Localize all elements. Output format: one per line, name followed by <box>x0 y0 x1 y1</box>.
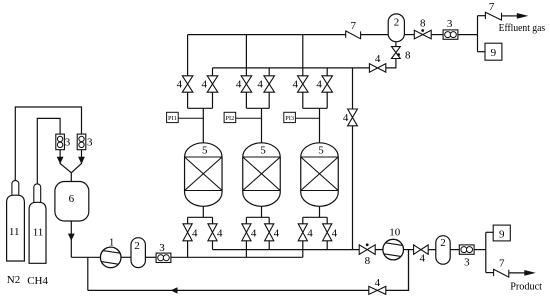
svg-text:4: 4 <box>419 252 425 264</box>
wire to analyzer 9a <box>478 51 486 53</box>
svg-text:8: 8 <box>365 255 371 267</box>
wire effluent outlet <box>502 15 518 17</box>
arrow recycle flow <box>171 287 178 293</box>
wire second header <box>213 67 353 69</box>
svg-text:8: 8 <box>405 50 411 62</box>
svg-text:8: 8 <box>420 17 426 29</box>
wire recycle line right segment <box>386 250 409 291</box>
flow controller 3a <box>56 134 65 150</box>
vacuum pump 10 <box>383 239 404 260</box>
svg-text:11: 11 <box>33 227 44 239</box>
wire equalization vertical <box>352 68 354 109</box>
wire vessel 6 outlet <box>70 221 72 258</box>
valve 4 top column 1 left <box>182 76 193 92</box>
valve 4h recycle <box>369 286 386 294</box>
wire second header drop to valve 4 column 1 right <box>212 68 214 76</box>
svg-text:10: 10 <box>389 226 401 238</box>
valve 4 bottom column 1 left <box>183 224 192 241</box>
node effluent junction riser up <box>477 16 479 35</box>
wire flowmeter 3d to effluent junction <box>458 34 478 36</box>
wire top header drop to valve 4 column 2 left <box>245 35 247 76</box>
svg-text:4: 4 <box>192 227 198 239</box>
svg-text:4: 4 <box>177 79 183 91</box>
svg-text:7: 7 <box>489 1 495 13</box>
node recycle tee <box>87 257 89 290</box>
wire vessel 2b drain stem <box>395 42 397 47</box>
svg-text:2: 2 <box>394 17 400 29</box>
adsorption column 5-3 <box>301 143 339 207</box>
valve 8c vessel 2b drain <box>392 47 401 59</box>
wire second header drop to valve 4 column 2 right <box>268 68 270 76</box>
valve 4 top column 1 right <box>207 76 218 92</box>
svg-text:4: 4 <box>236 79 242 91</box>
valve 8a effluent <box>414 30 431 39</box>
valve 4 bottom column 1 right <box>208 224 217 241</box>
svg-text:11: 11 <box>9 226 20 238</box>
svg-text:4: 4 <box>375 277 381 289</box>
wire product outlet <box>509 272 527 274</box>
pressure indicator PI2 <box>224 112 236 122</box>
wire feed line to pump 1 <box>71 256 101 258</box>
svg-text:PI3: PI3 <box>285 115 294 122</box>
product vessel 2c <box>436 236 450 265</box>
wire pump 1 to vessel 2a <box>121 256 132 258</box>
wire vessel 2a to flowmeter 3c <box>145 256 157 258</box>
wire flow controller 3a outlet <box>59 150 61 164</box>
arrow vessel 6 outlet <box>68 234 75 241</box>
wire second header drop to valve 4 column 3 right <box>326 68 328 76</box>
arrow into mixer from controller 3b <box>78 157 85 164</box>
wire merge line above column 2 <box>245 92 247 108</box>
valve 4 equalization vertical <box>348 109 358 126</box>
arrow into mixer from controller 3a <box>57 157 64 164</box>
wire to effluent valve 7b <box>478 15 486 17</box>
wire converge into vessel 6 <box>60 163 71 182</box>
valve 4g product <box>414 245 429 254</box>
svg-text:5: 5 <box>202 144 208 156</box>
svg-text:5: 5 <box>318 144 324 156</box>
svg-text:2: 2 <box>134 240 140 252</box>
svg-text:5: 5 <box>260 144 266 156</box>
wire split line below column 2 <box>261 206 263 217</box>
svg-text:PI2: PI2 <box>226 115 235 122</box>
svg-text:2: 2 <box>440 237 446 249</box>
valve 4 second header horizontal <box>369 64 385 73</box>
valve 4 bottom column 2 right <box>265 224 274 241</box>
valve 7a top header vent <box>345 30 347 37</box>
svg-text:4: 4 <box>217 227 223 239</box>
svg-text:1: 1 <box>109 237 115 249</box>
svg-text:3: 3 <box>65 136 71 148</box>
separator vessel 2b <box>388 14 404 42</box>
flowmeter 3e product <box>459 245 474 254</box>
valve 4 top column 2 left <box>241 76 252 92</box>
wire valve 4g to vessel 2c <box>428 249 436 251</box>
wire feed header <box>171 256 303 258</box>
flowmeter 3c <box>156 253 171 262</box>
svg-text:9: 9 <box>499 228 505 240</box>
wire to product valve 7c <box>486 272 494 274</box>
arrow effluent gas <box>517 13 529 19</box>
svg-text:3: 3 <box>87 136 93 148</box>
arrow product <box>524 270 536 276</box>
svg-text:4: 4 <box>274 227 280 239</box>
valve 4 top column 2 right <box>264 76 275 92</box>
buffer vessel 2a <box>131 238 145 268</box>
valve 4 bottom column 3 right <box>323 224 332 241</box>
valve 8b purge <box>359 245 375 255</box>
svg-text:Product: Product <box>510 280 542 292</box>
wire purge header <box>213 249 360 251</box>
svg-text:CH4: CH4 <box>27 275 48 287</box>
wire second header to valve 4f <box>353 67 370 69</box>
wire vessel 2c to flowmeter 3e <box>449 249 460 251</box>
valve 4 top column 3 right <box>322 76 333 92</box>
wire split line below column 3 <box>319 206 321 217</box>
svg-text:4: 4 <box>201 79 207 91</box>
svg-text:4: 4 <box>343 112 349 124</box>
node product junction riser <box>485 232 487 272</box>
wire split line below column 1 <box>202 206 204 217</box>
wire flowmeter 3e to product junction <box>474 249 486 251</box>
svg-text:7: 7 <box>350 20 356 32</box>
flowmeter 3d effluent <box>443 30 458 39</box>
svg-text:4: 4 <box>316 79 322 91</box>
valve 4 top column 3 left <box>298 76 309 92</box>
svg-text:4: 4 <box>293 79 299 91</box>
pressure indicator PI1 <box>167 112 179 122</box>
wire top header after valve 7a <box>361 34 389 36</box>
svg-text:3: 3 <box>447 18 453 30</box>
wire column 1 left valve to feed header <box>187 241 189 257</box>
svg-text:3: 3 <box>159 242 165 254</box>
svg-text:4: 4 <box>251 227 257 239</box>
wire valve 8a to flowmeter 3d <box>431 34 443 36</box>
valve 7b effluent vent <box>484 12 486 19</box>
flow controller 3b <box>77 134 86 150</box>
wire merge line above column 3 <box>302 92 304 108</box>
wire flow controller 3b outlet <box>81 150 83 164</box>
svg-text:6: 6 <box>69 193 75 205</box>
wire top header <box>188 34 346 36</box>
wire N2 cylinder to flow controller <box>15 107 81 183</box>
svg-text:4: 4 <box>257 79 263 91</box>
wire column 3 right valve to purge header <box>326 241 328 250</box>
valve 7c product vent <box>493 269 495 276</box>
mixing vessel 6 <box>55 182 89 222</box>
wire column 2 right valve to purge header <box>268 241 270 250</box>
svg-text:4: 4 <box>307 227 313 239</box>
node effluent junction riser down <box>477 35 479 52</box>
wire recycle line <box>88 289 369 291</box>
wire to analyzer 9b <box>486 231 493 233</box>
wire top header drop to valve 4 column 1 left <box>187 35 189 76</box>
valve 4 bottom column 2 left <box>242 224 251 241</box>
pressure indicator PI3 <box>284 112 296 122</box>
gas cylinder 11 CH4 <box>34 184 41 205</box>
wire vessel 2b to valve 8a <box>404 34 414 36</box>
wire valve 8b to pump 10 <box>375 249 383 251</box>
wire column 3 left valve to feed header <box>302 241 304 257</box>
pump 1 <box>100 247 121 268</box>
svg-text:4: 4 <box>375 53 381 65</box>
svg-text:N2: N2 <box>7 274 20 286</box>
adsorption column 5-2 <box>243 143 281 207</box>
svg-text:3: 3 <box>464 256 470 268</box>
wire column 2 left valve to feed header <box>245 241 247 257</box>
analyzer 9a <box>485 43 502 60</box>
wire merge line above column 1 <box>187 92 189 108</box>
wire top header drop to valve 4 column 3 left <box>302 35 304 76</box>
svg-text:PI1: PI1 <box>168 115 177 122</box>
svg-text:7: 7 <box>499 258 505 270</box>
svg-text:9: 9 <box>491 47 497 59</box>
analyzer 9b <box>493 225 510 241</box>
wire CH4 cylinder to flow controller <box>37 118 60 186</box>
gas cylinder 11 N2 <box>12 181 19 199</box>
wire pump 10 to valve 4g <box>403 249 413 251</box>
svg-text:4: 4 <box>332 227 338 239</box>
adsorption column 5-1 <box>185 143 223 207</box>
valve 4 bottom column 3 left <box>298 224 307 241</box>
wire column 1 right valve to purge header <box>212 241 214 250</box>
wire valve 4f to vessel 2b drain <box>386 59 396 68</box>
wire equalization vertical lower <box>352 126 354 250</box>
svg-text:Effluent gas: Effluent gas <box>499 22 545 34</box>
